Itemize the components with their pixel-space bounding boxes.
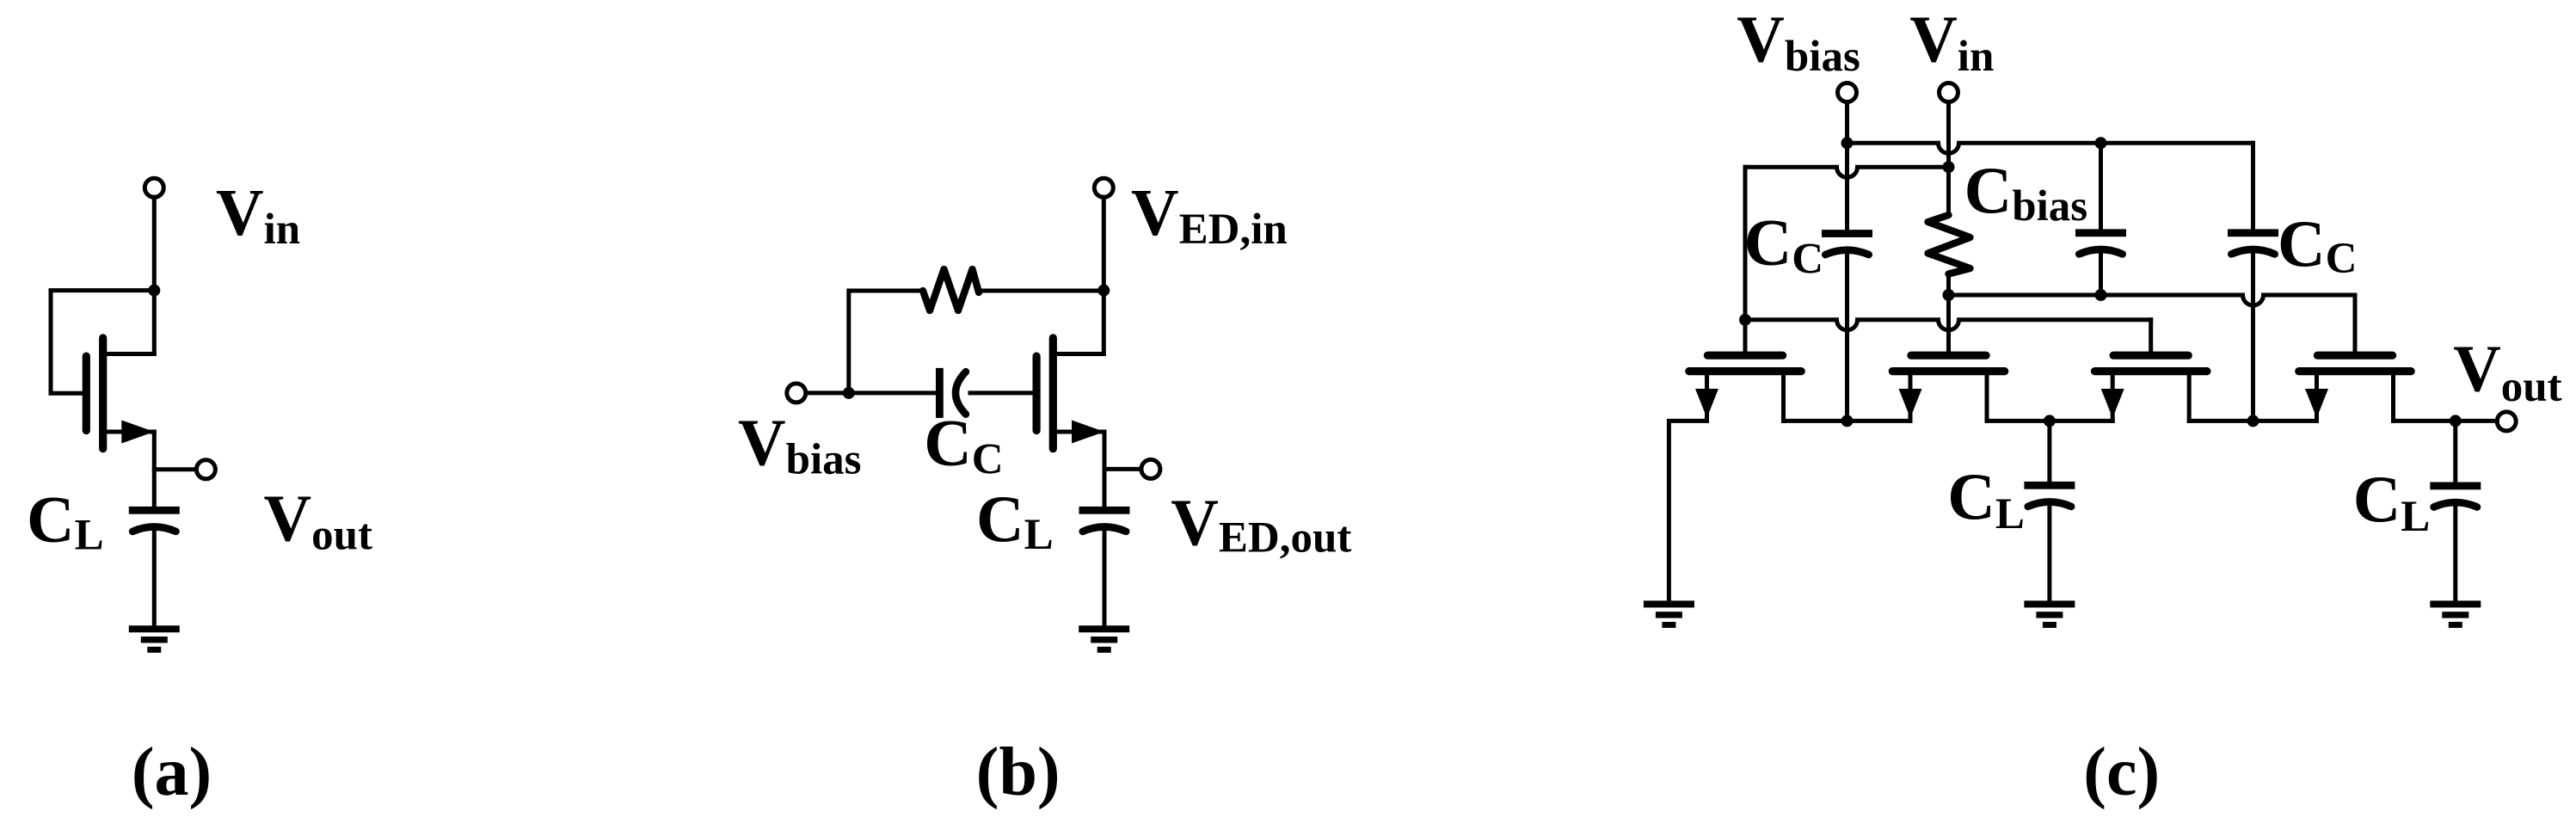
capacitor CL (b) <box>1079 507 1130 514</box>
wire drain lead (a) <box>103 352 155 356</box>
capacitor Cbias (c) <box>2075 229 2126 237</box>
wire Vin vertical (c) <box>1946 102 1951 216</box>
capacitor CL2 (c) <box>2430 483 2481 490</box>
capacitor CC right (c) <box>2228 229 2278 237</box>
wire drain lead (b) <box>1053 352 1104 356</box>
wire Cbias cap top lead (c) <box>2099 143 2103 230</box>
node resistor bottom junction (c) <box>1943 289 1955 301</box>
terminal Vout (c) <box>2497 412 2516 431</box>
wire gate feedback loop (a) <box>51 291 154 394</box>
wire Vbias bus y166 (c) <box>1847 143 2253 153</box>
wire CC left to rail (c) <box>1845 254 1849 421</box>
wire source to CL (b) <box>1103 432 1107 510</box>
terminal VED,in (b) <box>1094 178 1113 197</box>
M4 drain arrow (c) <box>2305 389 2328 418</box>
wire up to resistor (b) <box>849 291 923 393</box>
wire rail segment 3 (c) <box>2189 419 2316 423</box>
node Vout junction (c) <box>2450 415 2462 427</box>
capacitor CC (b) <box>936 368 944 418</box>
wire M2 source leg (c) <box>1985 372 1989 421</box>
transistor M1 (c) <box>1707 352 1782 360</box>
wire rail M1 to ground branch (c) <box>1669 421 1706 602</box>
wire rail segment 2 (c) <box>1987 419 2112 423</box>
wire CC right to rail (c) <box>2251 254 2255 421</box>
capacitor CL (a) <box>129 507 180 514</box>
wire source lead (a) <box>103 430 155 434</box>
svg-text:(c): (c) <box>2083 735 2160 810</box>
M3 drain arrow (c) <box>2101 389 2124 418</box>
ground (a) <box>129 625 180 632</box>
wire Vin vertical (a) <box>152 197 157 353</box>
wire Vbias vertical (c) <box>1845 102 1849 231</box>
wire CC to gate (b) <box>970 390 1032 395</box>
wire resistor to VEDin (b) <box>979 289 1104 293</box>
M2 drain arrow (c) <box>1899 389 1922 418</box>
ground CL1 (c) <box>2024 600 2075 607</box>
wire rail segment 4 (c) <box>2394 419 2498 423</box>
wire M1 drain leg (c) <box>1705 372 1709 421</box>
wire CL to ground (b) <box>1103 530 1107 629</box>
node gate-drain junction (a) <box>148 285 160 297</box>
node M1 gate junction (c) <box>1739 314 1751 326</box>
node Vbias bus junction (c) <box>1841 137 1854 149</box>
wire CL2 to ground (c) <box>2453 505 2457 602</box>
node CL1 junction (c) <box>2044 415 2056 427</box>
terminal Vin (a) <box>144 178 163 197</box>
wire M4 source leg (c) <box>2391 372 2395 421</box>
terminal Vbias (b) <box>787 384 806 403</box>
wire source to CL (a) <box>152 432 157 510</box>
node rail CC-right junction (c) <box>2247 415 2259 427</box>
wire M2 drain leg (c) <box>1909 372 1913 421</box>
resistor Rbias (b) <box>923 269 979 310</box>
terminal Vbias (c) <box>1838 83 1857 102</box>
wire M1 source leg (c) <box>1781 372 1786 421</box>
node Cbias top junction (c) <box>2095 137 2107 149</box>
capacitor CL1 (c) <box>2024 482 2075 489</box>
svg-text:(a): (a) <box>132 735 212 810</box>
capacitor CC left (c) <box>1822 230 1872 237</box>
resistor Rbias (c) <box>1928 215 1970 274</box>
wire M3 source leg (c) <box>2187 372 2192 421</box>
wire left riser (c) <box>1743 167 1748 355</box>
ground (b) <box>1079 625 1129 632</box>
node resistor-drain junction (b) <box>1097 285 1110 297</box>
transistor M1 (b) <box>1032 356 1040 430</box>
wire Vin gate bus y194 (c) <box>1745 167 1949 177</box>
wire Vbias lead (b) <box>806 390 936 395</box>
svg-text:(b): (b) <box>976 735 1061 810</box>
wire CL to ground (a) <box>152 530 157 629</box>
wire M3 drain leg (c) <box>2111 372 2115 421</box>
wire M3 gate riser (c) <box>2149 320 2153 355</box>
terminal VED,out (b) <box>1141 459 1160 478</box>
transistor M2 (c) <box>1911 352 1986 360</box>
wire bias bus y343 (c) <box>1949 295 2356 305</box>
ground CL2 (c) <box>2430 600 2481 607</box>
M1 drain arrow (c) <box>1695 389 1718 418</box>
node rail CC-left junction (c) <box>1841 415 1854 427</box>
transistor M3 (c) <box>2113 352 2188 360</box>
wire M2 gate riser (c) <box>1946 295 1951 355</box>
source arrow (a) <box>121 421 154 444</box>
wire resistor to node (c) <box>1946 274 1951 295</box>
source arrow (b) <box>1072 421 1104 444</box>
wire gate bus y371 (c) <box>1745 320 2151 330</box>
terminal Vin (c) <box>1940 83 1958 102</box>
transistor M1 (a) <box>83 356 90 430</box>
wire bus corner to CC right (c) <box>2251 143 2255 230</box>
wire M4 gate riser (c) <box>2353 295 2358 355</box>
wire CL2 top lead (c) <box>2453 421 2457 485</box>
wire Vout tap (a) <box>154 467 195 471</box>
wire CL1 to ground (c) <box>2047 505 2051 602</box>
wire VED,out tap (b) <box>1104 467 1141 471</box>
ground M1 (c) <box>1644 600 1694 607</box>
node Cbias bottom junction (c) <box>2095 289 2107 301</box>
wire VED,in vertical (b) <box>1102 197 1106 353</box>
node Vbias junction (b) <box>843 387 855 399</box>
wire source lead (b) <box>1053 430 1104 434</box>
wire CL1 top lead (c) <box>2047 421 2051 485</box>
node Vin-bus junction (c) <box>1943 161 1955 173</box>
wire rail segment 1 (c) <box>1784 419 1911 423</box>
wire M4 drain leg (c) <box>2315 372 2319 421</box>
wire Cbias cap bottom lead (c) <box>2099 253 2103 295</box>
transistor M4 (c) <box>2317 352 2392 360</box>
terminal Vout (a) <box>196 460 215 479</box>
